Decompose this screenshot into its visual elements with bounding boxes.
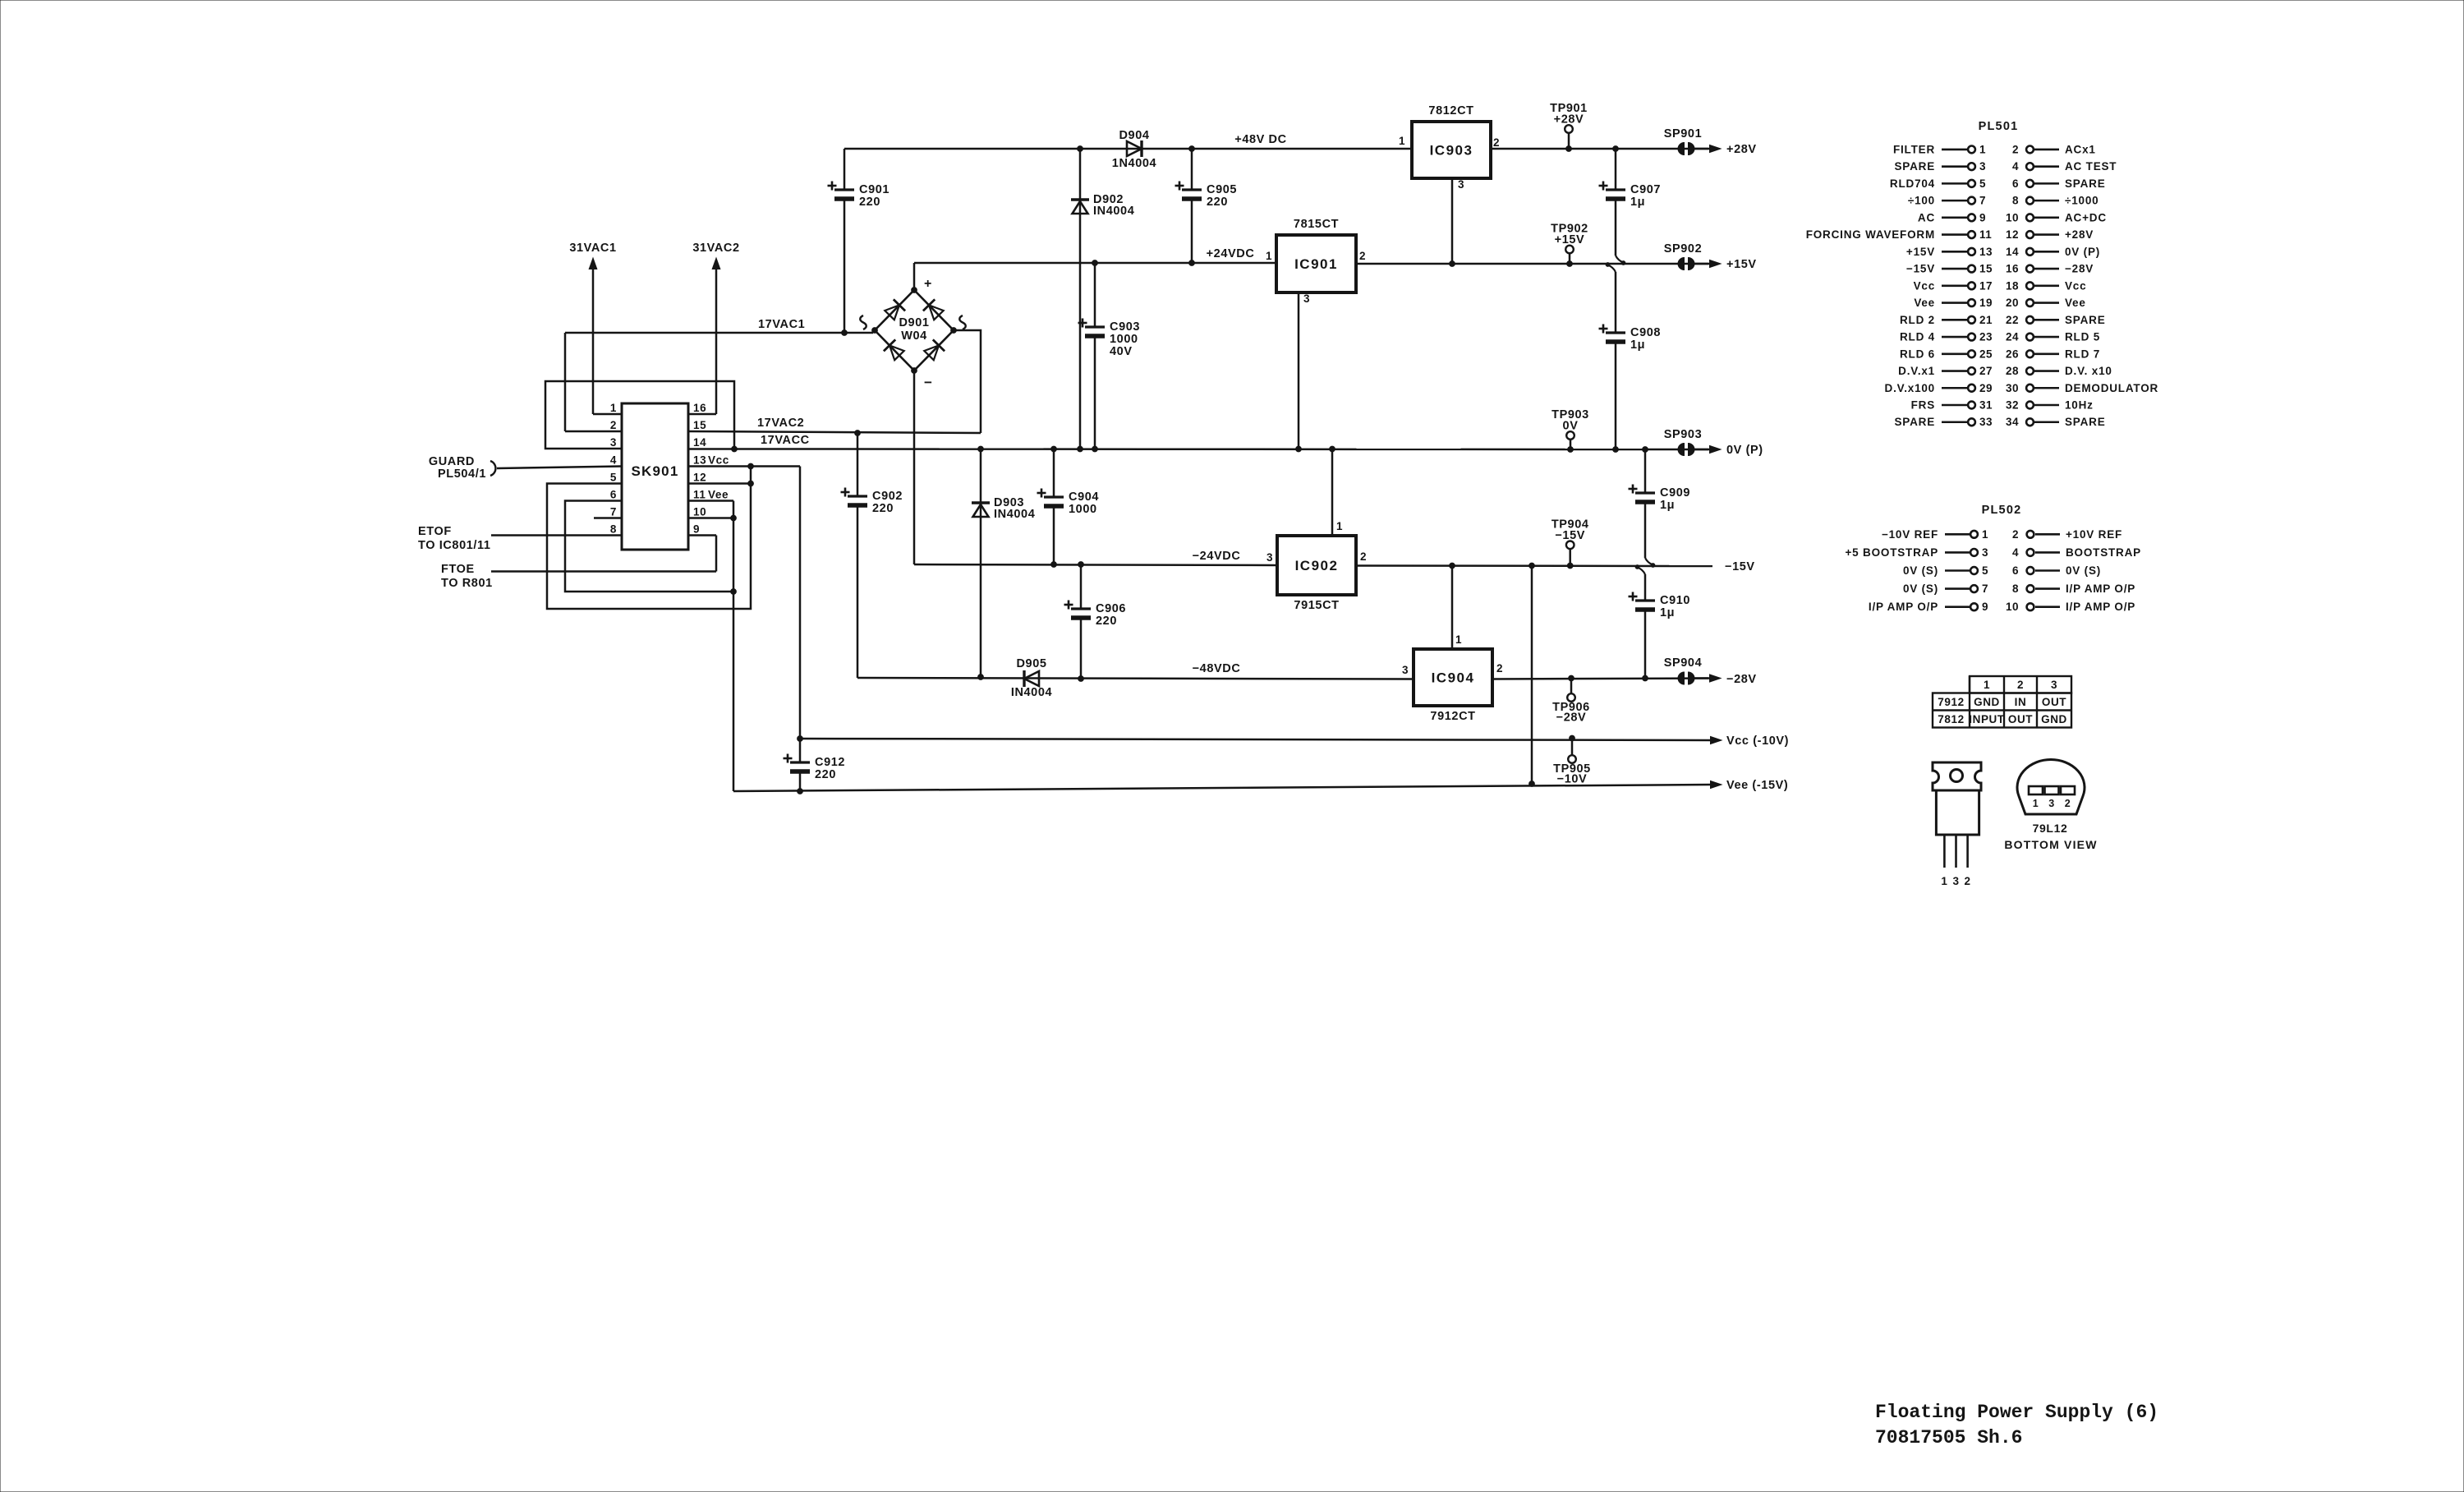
wire Vcc line xyxy=(800,739,1710,740)
svg-text:7812: 7812 xyxy=(1938,713,1964,725)
svg-text:31VAC1: 31VAC1 xyxy=(569,242,616,255)
node 31VAC1 xyxy=(589,258,597,269)
svg-text:AC TEST: AC TEST xyxy=(2065,160,2117,173)
svg-text:C908: C908 xyxy=(1630,326,1661,339)
svg-text:1: 1 xyxy=(610,402,617,414)
svg-text:2: 2 xyxy=(1496,662,1503,675)
junction pin13 link xyxy=(748,463,754,469)
crossover hop C907-C908 at +15V xyxy=(1615,272,1617,333)
wire -28V rail xyxy=(1492,679,1712,679)
svg-text:ETOF: ETOF xyxy=(418,525,452,538)
regulator IC901 xyxy=(1276,235,1356,292)
svg-text:8: 8 xyxy=(610,523,617,536)
svg-text:8: 8 xyxy=(2012,583,2019,595)
svg-text:0V: 0V xyxy=(1563,420,1579,433)
junction pin10 xyxy=(731,515,737,521)
svg-text:0V (P): 0V (P) xyxy=(2065,246,2100,258)
svg-text:−15V: −15V xyxy=(1555,529,1585,542)
capacitor C905 xyxy=(1191,149,1193,190)
svg-text:33: 33 xyxy=(1979,416,1993,428)
svg-text:+28V: +28V xyxy=(1554,113,1584,127)
svg-text:7912CT: 7912CT xyxy=(1430,710,1475,723)
svg-text:13: 13 xyxy=(693,454,706,467)
svg-text:ACx1: ACx1 xyxy=(2065,143,2096,155)
wire 17VAC2 xyxy=(688,431,981,433)
svg-text:29: 29 xyxy=(1979,382,1993,394)
svg-text:26: 26 xyxy=(2006,348,2019,360)
svg-text:1: 1 xyxy=(1941,875,1947,887)
node Vee arrow xyxy=(1711,781,1722,788)
svg-text:SK901: SK901 xyxy=(632,463,679,479)
svg-text:FILTER: FILTER xyxy=(1893,143,1935,155)
svg-text:SP903: SP903 xyxy=(1664,428,1703,441)
svg-text:INPUT: INPUT xyxy=(1969,713,2005,725)
SK901 pin numbers xyxy=(610,402,729,536)
svg-text:AC: AC xyxy=(1918,211,1935,223)
capacitor C907 xyxy=(1615,149,1617,190)
svg-text:PL501: PL501 xyxy=(1979,120,2019,133)
svg-text:RLD 7: RLD 7 xyxy=(2065,348,2100,360)
wire -15V rail xyxy=(1356,564,1712,567)
svg-text:16: 16 xyxy=(2006,263,2019,275)
svg-text:3: 3 xyxy=(1458,178,1464,191)
bridge rectifier D901 xyxy=(860,277,966,390)
svg-text:1: 1 xyxy=(1399,135,1405,147)
junction pin12 xyxy=(748,481,754,486)
svg-text:11: 11 xyxy=(693,489,706,501)
wire pin13 Vcc stub xyxy=(688,465,800,467)
svg-text:C912: C912 xyxy=(815,756,845,769)
svg-text:3: 3 xyxy=(2051,679,2057,691)
capacitor C910 xyxy=(1644,600,1647,602)
svg-text:32: 32 xyxy=(2006,399,2019,412)
svg-text:BOOTSTRAP: BOOTSTRAP xyxy=(2066,546,2141,559)
svg-text:SPARE: SPARE xyxy=(1894,160,1935,173)
regulator IC903 xyxy=(1412,122,1491,178)
svg-text:1: 1 xyxy=(1984,679,1990,691)
junction pin6 loop xyxy=(731,589,737,595)
svg-text:−10V REF: −10V REF xyxy=(1882,528,1938,541)
svg-text:Vcc (-10V): Vcc (-10V) xyxy=(1726,734,1789,748)
svg-text:3: 3 xyxy=(2048,798,2055,809)
svg-text:3: 3 xyxy=(610,436,617,449)
node 31VAC2 xyxy=(712,258,720,269)
capacitor C904 xyxy=(1053,449,1055,498)
svg-text:SPARE: SPARE xyxy=(2065,314,2106,326)
svg-text:AC+DC: AC+DC xyxy=(2065,211,2107,223)
svg-text:RLD 4: RLD 4 xyxy=(1900,331,1935,343)
svg-text:÷1000: ÷1000 xyxy=(2065,195,2099,207)
wire IC901 pin3 xyxy=(1298,292,1300,449)
wire IC903 pin3 xyxy=(1451,178,1454,264)
wire bridge+ riser xyxy=(913,263,916,290)
connector PL502 pin list xyxy=(1846,504,2141,613)
svg-text:SPARE: SPARE xyxy=(2065,177,2106,190)
svg-text:÷100: ÷100 xyxy=(1908,195,1935,207)
svg-text:SP901: SP901 xyxy=(1664,127,1703,140)
svg-text:+24VDC: +24VDC xyxy=(1207,247,1255,260)
wire -48V line xyxy=(857,678,1414,679)
wire +28V rail xyxy=(1491,148,1712,150)
svg-text:1: 1 xyxy=(1979,143,1986,155)
regulator IC902 xyxy=(1277,536,1356,595)
svg-text:7812CT: 7812CT xyxy=(1428,104,1473,117)
svg-text:−28V: −28V xyxy=(1726,673,1757,686)
svg-text:31: 31 xyxy=(1979,399,1993,412)
svg-text:OUT: OUT xyxy=(2008,713,2033,725)
wire pin16 to 31VAC2 riser xyxy=(688,413,716,416)
svg-text:IC902: IC902 xyxy=(1295,558,1339,573)
svg-text:9: 9 xyxy=(693,523,700,536)
svg-text:Vcc: Vcc xyxy=(1914,279,1935,292)
svg-text:4: 4 xyxy=(2012,546,2019,559)
svg-text:C905: C905 xyxy=(1207,183,1237,196)
wire pin4 GUARD xyxy=(497,467,622,469)
node GUARD hook xyxy=(490,461,495,476)
junction pin14/17VACC xyxy=(732,446,738,452)
svg-text:7815CT: 7815CT xyxy=(1294,218,1339,231)
diode D905 xyxy=(1024,671,1039,686)
svg-text:7: 7 xyxy=(610,506,617,518)
svg-text:1: 1 xyxy=(1455,633,1462,646)
svg-text:10: 10 xyxy=(693,506,706,518)
svg-text:15: 15 xyxy=(1979,263,1993,275)
wire Vee riser xyxy=(733,518,735,792)
svg-text:PL502: PL502 xyxy=(1982,504,2022,517)
svg-text:1000: 1000 xyxy=(1110,333,1138,346)
svg-text:3: 3 xyxy=(1952,875,1959,887)
svg-text:−: − xyxy=(924,375,932,390)
svg-text:IN4004: IN4004 xyxy=(994,508,1035,521)
wire pin8 ETOF xyxy=(491,534,622,536)
wire +24V rail xyxy=(914,262,1276,265)
splice SP904 xyxy=(1678,672,1684,684)
svg-text:C902: C902 xyxy=(872,490,903,503)
package TO-220 front view xyxy=(1933,762,1981,887)
svg-text:−28V: −28V xyxy=(1556,711,1587,725)
svg-text:−24VDC: −24VDC xyxy=(1193,550,1241,563)
wire pin2 stub xyxy=(565,431,622,433)
svg-text:2: 2 xyxy=(1493,136,1500,149)
svg-text:DEMODULATOR: DEMODULATOR xyxy=(2065,382,2158,394)
wire Vee riser right xyxy=(1531,566,1533,785)
svg-text:6: 6 xyxy=(2012,177,2019,190)
svg-text:5: 5 xyxy=(1982,564,1988,577)
svg-text:15: 15 xyxy=(693,419,706,431)
svg-text:D.V.x100: D.V.x100 xyxy=(1885,382,1935,394)
wire +15V rail xyxy=(1356,263,1712,265)
svg-text:−15V: −15V xyxy=(1725,560,1755,573)
svg-text:−15V: −15V xyxy=(1906,263,1935,275)
svg-text:13: 13 xyxy=(1979,246,1993,258)
wire pin5 loop xyxy=(547,484,751,610)
svg-text:C906: C906 xyxy=(1096,602,1126,615)
svg-text:220: 220 xyxy=(815,768,836,781)
svg-text:2: 2 xyxy=(2065,798,2071,809)
testpoint TP902 xyxy=(1565,246,1574,254)
svg-text:−28V: −28V xyxy=(2065,263,2094,275)
svg-text:10: 10 xyxy=(2006,211,2019,223)
svg-text:RLD704: RLD704 xyxy=(1890,177,1935,190)
wire pin7 stub xyxy=(594,517,622,519)
svg-text:−48VDC: −48VDC xyxy=(1193,662,1241,675)
wire pin11-pin10 link xyxy=(733,501,735,518)
svg-text:D904: D904 xyxy=(1119,129,1149,142)
package 79L12 bottom view xyxy=(2004,760,2097,851)
wire pin13 riser to Vcc line xyxy=(799,467,802,739)
wire pin10 stub xyxy=(688,517,733,519)
svg-text:17VAC1: 17VAC1 xyxy=(758,318,805,331)
wire pin12 stub xyxy=(688,482,751,485)
node Vcc arrow xyxy=(1711,736,1722,744)
svg-text:C910: C910 xyxy=(1660,594,1690,607)
testpoint TP906 xyxy=(1569,675,1574,681)
svg-text:24: 24 xyxy=(2006,331,2019,343)
svg-text:3: 3 xyxy=(1982,546,1988,559)
svg-text:7912: 7912 xyxy=(1938,696,1964,708)
svg-text:23: 23 xyxy=(1979,331,1993,343)
svg-text:SPARE: SPARE xyxy=(1894,416,1935,428)
svg-text:1: 1 xyxy=(1982,528,1988,541)
svg-text:W04: W04 xyxy=(901,329,927,343)
svg-text:FRS: FRS xyxy=(1911,399,1935,412)
svg-text:27: 27 xyxy=(1979,365,1993,377)
diode D903 xyxy=(980,449,982,678)
svg-text:1: 1 xyxy=(1336,520,1343,532)
svg-text:22: 22 xyxy=(2006,314,2019,326)
wire 17VACC / 0V(P) rail xyxy=(734,448,1645,450)
svg-text:Vee (-15V): Vee (-15V) xyxy=(1726,779,1788,792)
svg-text:1N4004: 1N4004 xyxy=(1112,157,1156,170)
svg-text:14: 14 xyxy=(2006,246,2019,258)
svg-text:I/P AMP O/P: I/P AMP O/P xyxy=(1869,601,1938,613)
svg-text:RLD 5: RLD 5 xyxy=(2065,331,2100,343)
svg-text:Vee: Vee xyxy=(2065,297,2086,309)
diode D904 xyxy=(1127,141,1142,156)
svg-text:17VAC2: 17VAC2 xyxy=(757,417,804,430)
svg-text:+28V: +28V xyxy=(1726,143,1757,156)
svg-text:30: 30 xyxy=(2006,382,2019,394)
svg-text:SPARE: SPARE xyxy=(2065,416,2106,428)
svg-text:+10V REF: +10V REF xyxy=(2066,528,2122,541)
splice SP901 xyxy=(1678,143,1684,155)
svg-text:IC901: IC901 xyxy=(1294,256,1338,272)
svg-text:9: 9 xyxy=(1979,211,1986,223)
svg-text:8: 8 xyxy=(2012,195,2019,207)
svg-text:1μ: 1μ xyxy=(1630,338,1645,352)
svg-text:4: 4 xyxy=(610,454,617,467)
svg-text:7: 7 xyxy=(1979,195,1986,207)
svg-text:I/P AMP O/P: I/P AMP O/P xyxy=(2066,601,2135,613)
wire IC904 pin1 xyxy=(1451,566,1454,650)
svg-text:Vee: Vee xyxy=(1914,297,1935,309)
svg-text:70817505 Sh.6: 70817505 Sh.6 xyxy=(1875,1427,2022,1448)
svg-text:BOTTOM VIEW: BOTTOM VIEW xyxy=(2004,838,2097,851)
svg-text:Floating Power Supply (6): Floating Power Supply (6) xyxy=(1875,1402,2158,1423)
svg-text:2: 2 xyxy=(1965,875,1971,887)
svg-text:C909: C909 xyxy=(1660,486,1690,500)
svg-text:C903: C903 xyxy=(1110,320,1140,334)
svg-text:12: 12 xyxy=(2006,228,2019,241)
crossover hop C909-C910 at -15V xyxy=(1644,574,1647,601)
svg-text:4: 4 xyxy=(2012,160,2019,173)
svg-text:5: 5 xyxy=(610,472,617,484)
svg-text:RLD 6: RLD 6 xyxy=(1900,348,1935,360)
svg-text:TO IC801/11: TO IC801/11 xyxy=(418,539,491,552)
wire pin1 to 31VAC1 riser xyxy=(593,413,622,416)
svg-text:17: 17 xyxy=(1979,279,1993,292)
svg-text:I/P AMP O/P: I/P AMP O/P xyxy=(2066,583,2135,595)
diode D902 xyxy=(1079,149,1082,449)
svg-text:9: 9 xyxy=(1982,601,1988,613)
svg-text:3: 3 xyxy=(1266,551,1273,564)
svg-text:+15V: +15V xyxy=(1555,233,1585,246)
svg-text:0V (P): 0V (P) xyxy=(1726,444,1763,457)
svg-text:FORCING WAVEFORM: FORCING WAVEFORM xyxy=(1806,228,1935,241)
svg-text:3: 3 xyxy=(1979,160,1986,173)
svg-text:+: + xyxy=(924,277,931,291)
svg-text:+15V: +15V xyxy=(1726,258,1757,271)
svg-text:16: 16 xyxy=(693,402,706,414)
transformer SK901 xyxy=(622,403,688,550)
svg-text:20: 20 xyxy=(2006,297,2019,309)
wire -24V rail xyxy=(914,564,1277,565)
svg-text:14: 14 xyxy=(693,436,706,449)
svg-text:2: 2 xyxy=(2017,679,2024,691)
svg-text:GND: GND xyxy=(2041,713,2067,725)
svg-text:IN4004: IN4004 xyxy=(1093,205,1134,218)
svg-text:2: 2 xyxy=(1360,550,1367,563)
svg-text:SP902: SP902 xyxy=(1664,242,1703,256)
svg-text:OUT: OUT xyxy=(2042,696,2066,708)
svg-text:GUARD: GUARD xyxy=(429,455,475,468)
svg-text:28: 28 xyxy=(2006,365,2019,377)
wire pin11 stub xyxy=(688,500,733,502)
svg-text:D905: D905 xyxy=(1016,657,1046,670)
table 7912/7812 pinout xyxy=(1933,676,2071,728)
svg-text:0V (S): 0V (S) xyxy=(1903,564,1938,577)
svg-text:10: 10 xyxy=(2006,601,2019,613)
svg-text:220: 220 xyxy=(859,196,880,209)
svg-text:3: 3 xyxy=(1303,292,1310,305)
svg-text:0V (S): 0V (S) xyxy=(1903,583,1938,595)
svg-text:7915CT: 7915CT xyxy=(1294,599,1339,612)
svg-text:34: 34 xyxy=(2006,416,2019,428)
svg-text:17VACC: 17VACC xyxy=(761,434,810,447)
svg-text:FTOE: FTOE xyxy=(441,563,475,576)
svg-text:1: 1 xyxy=(1266,250,1272,262)
svg-text:−10V: −10V xyxy=(1557,773,1588,786)
capacitor C902 xyxy=(857,433,859,496)
svg-text:2: 2 xyxy=(2012,528,2019,541)
svg-text:11: 11 xyxy=(1979,228,1992,241)
capacitor C909 xyxy=(1644,449,1647,493)
svg-text:0V (S): 0V (S) xyxy=(2066,564,2101,577)
wire pin3 loop to pin14 xyxy=(545,381,734,449)
wire pin6 loop xyxy=(565,501,733,592)
svg-text:1: 1 xyxy=(2033,798,2039,809)
capacitor C908 xyxy=(1615,332,1617,334)
svg-text:18: 18 xyxy=(2006,279,2019,292)
svg-text:C901: C901 xyxy=(859,183,890,196)
svg-text:PL504/1: PL504/1 xyxy=(438,467,486,481)
splice SP903 xyxy=(1678,444,1684,456)
svg-text:12: 12 xyxy=(693,472,706,484)
svg-text:25: 25 xyxy=(1979,348,1993,360)
svg-text:C904: C904 xyxy=(1069,490,1099,504)
svg-text:6: 6 xyxy=(610,489,617,501)
svg-text:Vee: Vee xyxy=(708,489,729,501)
wire pin12-pin13 link xyxy=(750,467,752,484)
svg-text:21: 21 xyxy=(1979,314,1993,326)
capacitor C903 xyxy=(1094,263,1096,327)
svg-text:220: 220 xyxy=(1207,196,1228,209)
title block xyxy=(1875,1402,2158,1448)
testpoint TP903 xyxy=(1566,431,1574,440)
svg-text:19: 19 xyxy=(1979,297,1993,309)
svg-text:+28V: +28V xyxy=(2065,228,2094,241)
svg-text:IN4004: IN4004 xyxy=(1011,686,1052,699)
svg-text:D.V. x10: D.V. x10 xyxy=(2065,365,2112,377)
wire pin9 FTOE xyxy=(491,570,716,573)
svg-text:2: 2 xyxy=(2012,143,2019,155)
svg-text:220: 220 xyxy=(872,502,894,515)
capacitor C912 xyxy=(799,739,802,762)
splice SP902 xyxy=(1678,258,1684,270)
connector PL501 pin list xyxy=(1806,120,2158,428)
svg-text:C907: C907 xyxy=(1630,183,1661,196)
svg-text:3: 3 xyxy=(1402,664,1409,676)
svg-text:1μ: 1μ xyxy=(1660,606,1675,619)
regulator IC904 xyxy=(1414,649,1492,706)
svg-text:220: 220 xyxy=(1096,615,1117,628)
wire +48V rail xyxy=(844,148,1412,150)
svg-text:40V: 40V xyxy=(1110,345,1133,358)
wire bridge- riser xyxy=(913,371,916,564)
svg-text:31VAC2: 31VAC2 xyxy=(692,242,739,255)
capacitor C901 xyxy=(844,149,846,190)
wire Vee line xyxy=(733,785,1710,791)
svg-text:TO R801: TO R801 xyxy=(441,577,493,590)
svg-text:+15V: +15V xyxy=(1906,246,1935,258)
svg-text:5: 5 xyxy=(1979,177,1986,190)
svg-text:6: 6 xyxy=(2012,564,2019,577)
testpoint TP901 xyxy=(1565,125,1573,133)
svg-text:Vcc: Vcc xyxy=(708,454,729,467)
testpoint TP904 xyxy=(1566,541,1574,550)
capacitor C906 xyxy=(1080,564,1083,609)
svg-text:IC903: IC903 xyxy=(1430,143,1473,159)
svg-text:IC904: IC904 xyxy=(1432,670,1475,686)
svg-text:+5 BOOTSTRAP: +5 BOOTSTRAP xyxy=(1846,546,1939,559)
svg-text:D901: D901 xyxy=(899,316,929,329)
svg-text:GND: GND xyxy=(1974,696,2000,708)
svg-text:IN: IN xyxy=(2015,696,2027,708)
svg-text:RLD 2: RLD 2 xyxy=(1900,314,1935,326)
svg-text:1000: 1000 xyxy=(1069,503,1097,516)
svg-text:1μ: 1μ xyxy=(1660,499,1675,512)
svg-text:+48V DC: +48V DC xyxy=(1234,133,1286,146)
wire IC902 pin1 xyxy=(1331,449,1334,536)
svg-text:2: 2 xyxy=(1359,250,1366,262)
svg-text:D.V.x1: D.V.x1 xyxy=(1898,365,1935,377)
svg-text:Vcc: Vcc xyxy=(2065,279,2086,292)
testpoint TP905 xyxy=(1570,735,1575,741)
svg-text:7: 7 xyxy=(1982,583,1988,595)
svg-text:10Hz: 10Hz xyxy=(2065,399,2094,412)
svg-text:2: 2 xyxy=(610,419,617,431)
svg-text:79L12: 79L12 xyxy=(2033,822,2068,835)
